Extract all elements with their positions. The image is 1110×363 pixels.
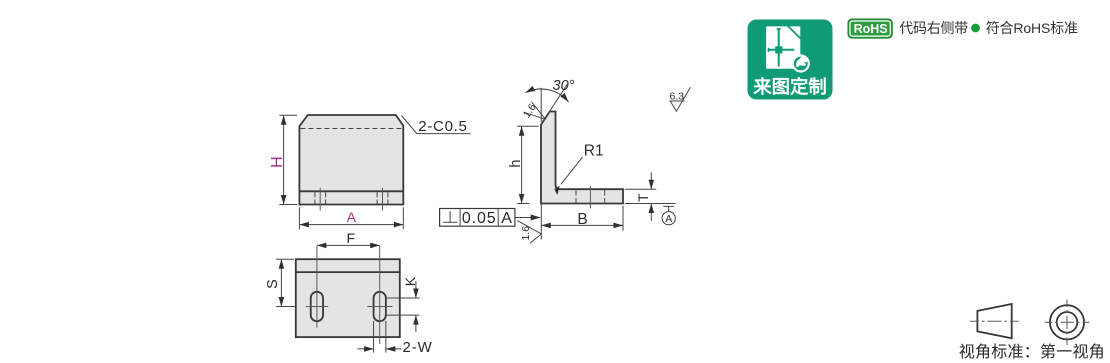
svg-text:2-C0.5: 2-C0.5 [418, 118, 467, 135]
RoHS note green dot [971, 24, 980, 33]
front view right slot hidden line 2 [387, 192, 389, 204]
dimension K extension lines [387, 297, 420, 299]
right slot vertical centerline [379, 246, 381, 344]
svg-text:代码右侧带: 代码右侧带 [899, 20, 968, 36]
chamfer note 2-C0.5 leader [402, 116, 471, 134]
front view right slot hidden line 1 [376, 192, 378, 204]
30 degree dimension arc [525, 89, 568, 102]
svg-text:S: S [265, 279, 281, 289]
dimension H line [283, 115, 285, 204]
perpendicularity symbol [449, 211, 451, 222]
dimension A line [299, 224, 403, 226]
side view slot centerline [589, 186, 591, 209]
svg-text:30°: 30° [553, 78, 575, 94]
svg-text:h: h [508, 160, 524, 168]
top view right slot [374, 292, 386, 321]
svg-text:A: A [347, 209, 357, 225]
dimension B line [541, 224, 623, 226]
front view body outline [299, 115, 403, 205]
custom drawing badge [748, 20, 833, 100]
dimension K line with outside arrows [415, 281, 417, 298]
side view slot hidden line 2 [604, 190, 606, 204]
front view left slot hidden line 1 [314, 192, 316, 204]
svg-text:来图定制: 来图定制 [752, 76, 827, 97]
front view chamfer hidden dashed line [300, 128, 402, 130]
front view base strip edge line [299, 190, 403, 192]
svg-text:T: T [635, 193, 651, 202]
front view right slot centerline [382, 188, 384, 211]
dimension h line [521, 126, 523, 203]
svg-text:2-W: 2-W [403, 339, 433, 356]
dimension T line with outside arrows [650, 172, 652, 189]
perpendicularity tolerance frame [440, 209, 515, 227]
front view left slot centerline [319, 188, 321, 211]
svg-text:B: B [577, 211, 587, 228]
svg-text:K: K [402, 276, 418, 286]
datum A tick [663, 205, 674, 207]
datum A circle [662, 212, 675, 225]
front view left slot hidden line 2 [325, 192, 327, 204]
badge crosshair [778, 28, 780, 67]
top view body outline [296, 259, 400, 337]
side view L-profile outline [541, 112, 623, 204]
svg-text:1.6: 1.6 [521, 101, 539, 120]
svg-text:1.6: 1.6 [520, 226, 532, 241]
slot width extension lines for 2-W [373, 321, 375, 353]
dimension B extension lines [622, 206, 624, 231]
side view slot hidden line 1 [575, 190, 577, 204]
30 degree vertical ray [540, 88, 542, 122]
top view left slot [311, 292, 323, 321]
dimension S line [280, 259, 282, 306]
svg-text:0.05: 0.05 [462, 210, 497, 227]
dimension h extension lines [517, 125, 539, 127]
svg-text:A: A [665, 213, 672, 225]
svg-text:符合RoHS标准: 符合RoHS标准 [986, 20, 1078, 36]
tolerance leader arrow [515, 217, 534, 219]
projection circles [1050, 305, 1084, 339]
top view leg edge line [296, 271, 400, 273]
svg-text:RoHS: RoHS [854, 22, 888, 36]
RoHS pill [848, 19, 892, 38]
first angle projection cone [977, 304, 1011, 338]
dimension T extension lines [625, 188, 656, 190]
svg-text:视角标准：第一视角: 视角标准：第一视角 [959, 343, 1105, 361]
dimension A extension lines [298, 207, 300, 229]
svg-text:H: H [269, 156, 286, 168]
dimension H extension lines [279, 114, 297, 116]
badge hand circle [792, 54, 810, 72]
chamfer roughness mark 1.6 [524, 112, 546, 119]
right slot horizontal centerline [367, 306, 392, 308]
dimension 2-W line with outside arrows [357, 348, 373, 350]
bottom surface roughness mark 1.6 [517, 221, 541, 234]
svg-text:F: F [347, 230, 356, 246]
dimension S extension lines [276, 258, 294, 260]
cone centerline [970, 320, 1019, 322]
badge document fold corner [790, 26, 801, 37]
svg-text:A: A [501, 210, 512, 227]
left slot vertical centerline [316, 246, 318, 328]
badge document sheet [766, 26, 800, 68]
fillet note R1 leader [561, 157, 583, 184]
left slot horizontal centerline [306, 306, 328, 308]
circle crosshair centerlines [1045, 321, 1090, 323]
dimension F line [317, 244, 380, 246]
svg-text:R1: R1 [584, 142, 604, 159]
30 degree chamfer extension ray [548, 85, 568, 115]
